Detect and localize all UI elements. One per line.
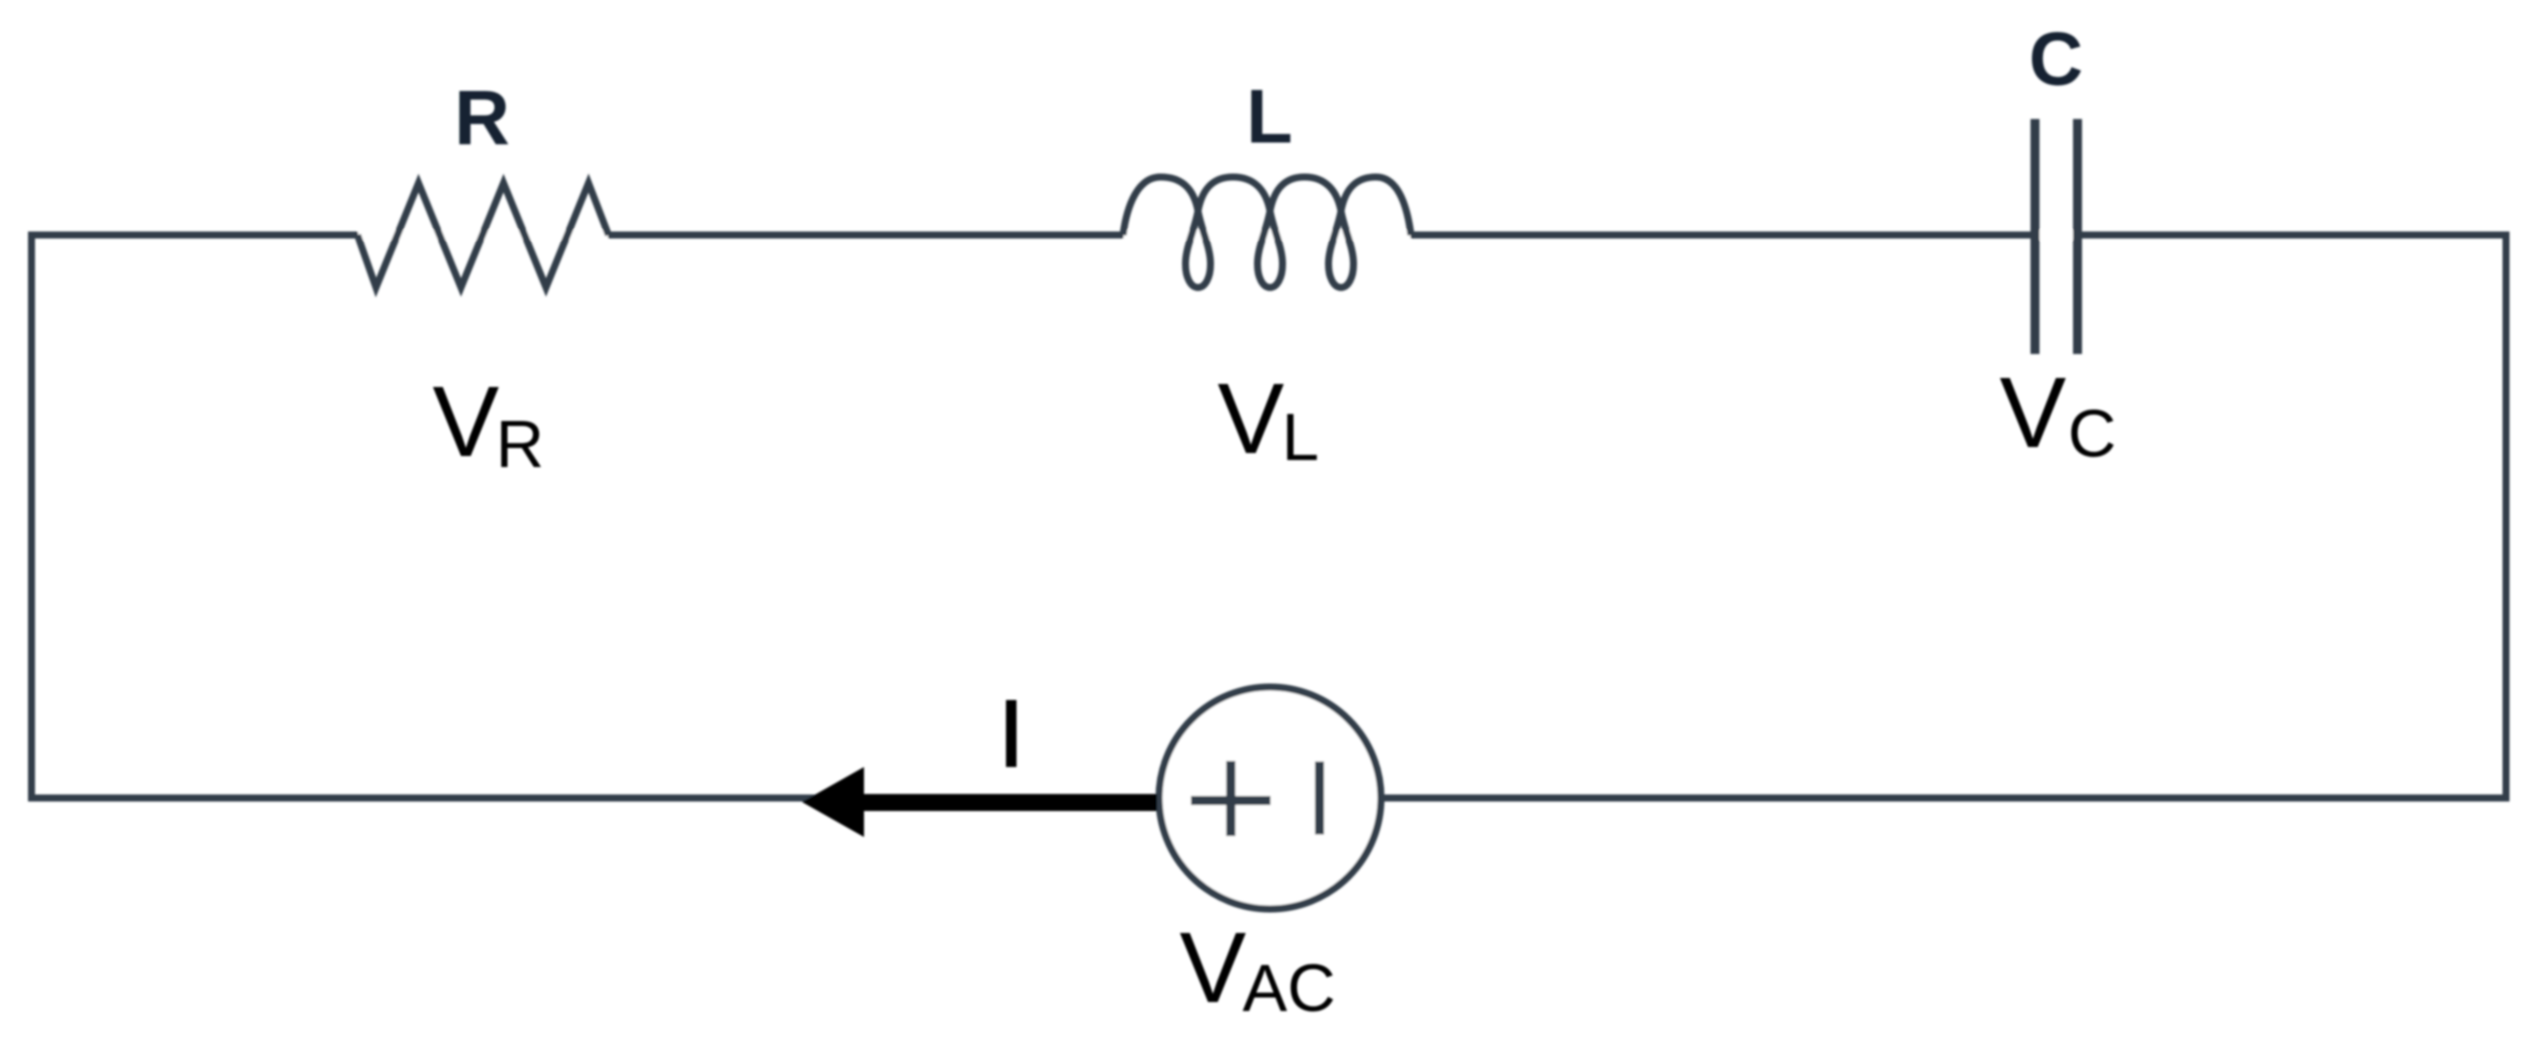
svg-text:R: R	[454, 75, 510, 161]
svg-text:R: R	[496, 407, 544, 482]
svg-text:V: V	[433, 366, 500, 478]
svg-text:L: L	[1246, 75, 1292, 160]
svg-text:V: V	[1180, 912, 1247, 1024]
svg-text:L: L	[1282, 400, 1319, 475]
svg-text:V: V	[2000, 357, 2067, 469]
svg-text:V: V	[1218, 363, 1285, 475]
svg-text:AC: AC	[1243, 951, 1336, 1026]
svg-text:C: C	[2068, 397, 2116, 472]
svg-text:C: C	[2029, 17, 2083, 101]
